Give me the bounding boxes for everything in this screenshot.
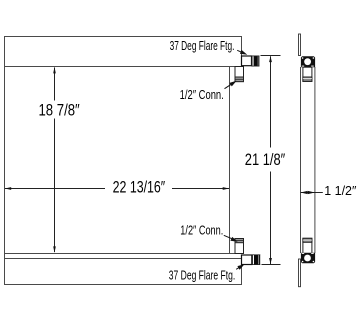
svg-text:22 13/16″: 22 13/16″ [113,179,166,197]
svg-text:1/2″ Conn.: 1/2″ Conn. [180,87,224,102]
side view body wires [301,67,315,253]
dimension 21 1/8 vertical line [270,56,272,264]
dimension 22 13/16 arrows [5,187,12,190]
core right edge wire [229,67,231,254]
fitting: top 37 deg flare body [242,56,252,66]
svg-text:18 7/8″: 18 7/8″ [39,102,80,120]
fitting: top 1/2in connector body [235,67,244,82]
bottom tank outline [5,259,242,285]
side view bottom flare nut block [301,253,315,264]
svg-text:37 Deg Flare Ftg.: 37 Deg Flare Ftg. [169,268,235,283]
fitting: bottom 37 deg flare body [242,255,252,265]
dimension 22 13/16 horizontal line [5,188,229,190]
svg-text:21 1/8″: 21 1/8″ [245,151,286,169]
side view bottom mounting flange [299,259,301,287]
dimension 18 7/8 arrows [53,67,56,74]
side view bottom conn tube [303,238,312,253]
fitting: top flare nut [251,56,259,67]
dimension 18 7/8 vertical line [54,68,56,253]
side view top conn tube [303,67,312,81]
top tank outline [5,37,242,67]
dimension 21 1/8 extension line top [261,55,281,57]
dimension 21 1/8 arrows [269,56,272,62]
leader bottom conn [224,235,232,238]
svg-text:1/2″ Conn.: 1/2″ Conn. [180,223,223,238]
side view top flare nut block [301,56,315,67]
fitting: bottom flare nut [252,255,260,265]
core bottom line [5,253,244,255]
tank bottom line extended to conn [5,66,244,68]
leader bottom flare [236,267,240,269]
leader top flare [237,50,243,53]
dimension 1 1/2 line [301,192,323,194]
left edge wire [4,37,6,285]
svg-text:1 1/2″: 1 1/2″ [324,183,357,198]
dimension 21 1/8 extension line bottom [262,264,281,266]
side view top mounting flange [299,34,301,56]
leader top conn [225,84,232,88]
dimension 1 1/2 arrows [301,191,308,194]
fitting: bottom 1/2in connector body [235,239,244,254]
svg-text:37 Deg Flare Ftg.: 37 Deg Flare Ftg. [170,38,235,53]
